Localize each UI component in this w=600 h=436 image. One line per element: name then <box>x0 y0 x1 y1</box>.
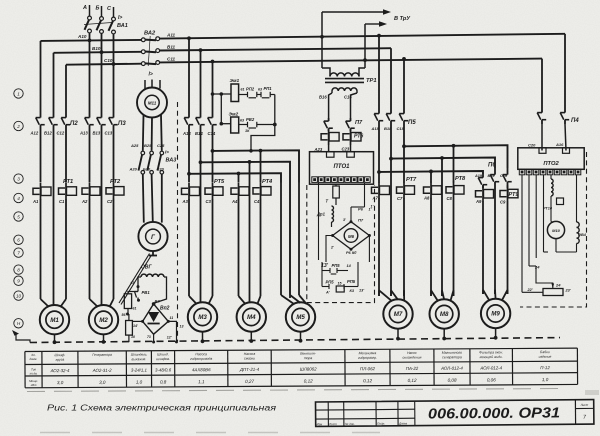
wire C distribution bus <box>213 149 300 183</box>
wire resistor connections <box>122 292 139 318</box>
resistor 15 <box>325 282 364 295</box>
svg-text:В2: В2 <box>155 299 161 304</box>
transformer ТР1 core <box>325 78 377 84</box>
dashed section boundary <box>177 102 179 341</box>
wire Эм2 feed <box>221 123 230 125</box>
svg-text:А3: А3 <box>182 199 189 204</box>
svg-text:7: 7 <box>17 250 20 255</box>
transformer ТР1 primary <box>322 68 365 77</box>
svg-text:Лист: Лист <box>580 403 589 407</box>
svg-text:РТ8: РТ8 <box>455 176 466 182</box>
node А25 В25 С25 <box>130 143 165 148</box>
wire Эм1 feed <box>211 92 231 96</box>
svg-text:Насоса: Насоса <box>244 352 256 356</box>
svg-text:М1: М1 <box>50 317 59 324</box>
contactor П5 contact A <box>371 108 384 131</box>
wire B distribution bus <box>201 160 291 295</box>
wire row С11 <box>160 56 542 62</box>
wire to А23 <box>314 145 329 152</box>
svg-text:РТ2: РТ2 <box>110 179 121 185</box>
relay contact РП2 <box>239 87 261 98</box>
svg-text:Лист: Лист <box>328 422 337 426</box>
control unit ПТО1 <box>310 152 374 185</box>
svg-text:РТ9: РТ9 <box>509 192 520 198</box>
thermal relay РТ1 heater C1 <box>59 179 77 204</box>
contactor П2 contact A <box>30 112 45 136</box>
svg-text:2: 2 <box>16 124 20 129</box>
node В2 <box>152 299 161 306</box>
table motor data <box>25 348 578 388</box>
svg-text:61: 61 <box>131 281 135 285</box>
svg-text:П-12: П-12 <box>540 365 550 370</box>
svg-text:ВА3: ВА3 <box>166 158 177 164</box>
wire М2 feeders lower <box>90 199 114 299</box>
svg-text:Р6 9Л: Р6 9Л <box>346 251 357 255</box>
wire Вп2 left arm <box>132 320 144 323</box>
wire М4 lower <box>239 199 261 296</box>
svg-text:4: 4 <box>17 196 20 201</box>
svg-text:006.00.000. ОР31: 006.00.000. ОР31 <box>428 405 560 422</box>
rectifier Вп2 <box>143 304 170 334</box>
svg-text:С12: С12 <box>57 131 65 136</box>
svg-text:24: 24 <box>555 283 561 288</box>
svg-text:3-48/0,6: 3-48/0,6 <box>155 367 172 372</box>
svg-text:С20: С20 <box>157 167 165 172</box>
svg-text:1К: 1К <box>245 129 250 133</box>
svg-text:№ док.: № док. <box>345 422 355 426</box>
svg-text:С8: С8 <box>447 196 453 201</box>
svg-text:1: 1 <box>17 91 20 96</box>
contactor П3 contact A <box>79 112 94 136</box>
node С10 junction <box>112 62 116 66</box>
scan streak bottom <box>40 432 380 434</box>
caption Рис.1 <box>47 404 277 413</box>
thermal relay РТ9 heater А9 <box>475 186 494 205</box>
node row marker 3 <box>14 174 23 183</box>
contactor П4 contact C <box>537 108 546 124</box>
svg-text:П3: П3 <box>118 121 126 127</box>
wire П6 A-bus <box>379 163 496 175</box>
svg-text:Магнитного: Магнитного <box>442 351 462 355</box>
svg-text:А13: А13 <box>79 131 88 136</box>
thermal relay РТ7 heater С7 <box>397 177 418 201</box>
svg-text:Шпиндель: Шпиндель <box>131 353 147 357</box>
winding inside ПТО2 <box>551 175 553 196</box>
thermal relay РТ1 heater A1 <box>32 183 51 204</box>
wire П6 C-bus <box>404 144 508 168</box>
svg-text:М8: М8 <box>440 311 449 318</box>
wire Вп2 bottom <box>147 334 155 343</box>
contactor П5 contact C <box>397 108 417 131</box>
svg-text:24: 24 <box>534 265 540 270</box>
svg-text:С1: С1 <box>59 199 65 204</box>
svg-text:2': 2' <box>330 246 334 250</box>
svg-text:В12: В12 <box>44 131 52 136</box>
svg-text:РТ5: РТ5 <box>214 179 225 185</box>
svg-text:8: 8 <box>17 267 20 272</box>
node phase A input <box>82 5 90 16</box>
node phase C input <box>107 6 114 17</box>
wire П4 feeder C20 <box>541 59 543 108</box>
svg-text:С7: С7 <box>397 196 403 201</box>
wire П4 feeder A16 <box>564 34 566 108</box>
node В10 junction <box>100 50 104 54</box>
svg-text:0,8: 0,8 <box>160 379 167 384</box>
wire bridge right <box>368 236 370 263</box>
contactor П3 contact B <box>93 112 106 136</box>
svg-text:моющей жидк.: моющей жидк. <box>480 355 503 359</box>
svg-text:73: 73 <box>147 335 151 339</box>
node row marker 10 <box>14 291 23 300</box>
svg-text:1,0: 1,0 <box>136 380 143 385</box>
svg-text:П7: П7 <box>358 218 364 223</box>
thermal relay РТ8 heater А8 <box>423 182 442 201</box>
arrow to ТрУ 1 <box>322 9 411 22</box>
scan streak under table <box>27 389 560 392</box>
wire bridge top <box>351 207 365 222</box>
node Н marker <box>14 319 23 328</box>
svg-text:13': 13' <box>359 289 364 293</box>
scan smudge right <box>585 390 599 395</box>
svg-text:А11: А11 <box>166 33 176 38</box>
svg-text:РВ2: РВ2 <box>246 117 255 122</box>
svg-text:ДПТ-21-4: ДПТ-21-4 <box>239 367 260 372</box>
svg-text:1': 1' <box>371 205 374 209</box>
svg-text:3-24/1,1: 3-24/1,1 <box>131 368 148 373</box>
svg-text:3,0: 3,0 <box>57 380 64 385</box>
svg-text:0,12: 0,12 <box>363 378 372 383</box>
svg-text:движ.: движ. <box>30 357 38 361</box>
svg-text:ПЛ-062: ПЛ-062 <box>360 366 376 371</box>
resistor 24 <box>536 266 571 296</box>
svg-text:Насос: Насос <box>407 351 417 355</box>
motor М4 <box>237 296 266 332</box>
svg-text:А9: А9 <box>475 199 482 204</box>
svg-text:М11: М11 <box>148 101 157 106</box>
solenoid Эм2 <box>229 111 239 133</box>
motor М11 <box>137 88 167 118</box>
circuit breaker ВА1 <box>84 15 128 34</box>
mechanical coupling Г-М2 <box>119 254 152 305</box>
node Эм return <box>273 123 277 127</box>
svg-text:14': 14' <box>133 324 138 328</box>
svg-text:13: 13 <box>180 325 184 329</box>
relay contact РВ2 <box>239 117 275 133</box>
node row marker 8 <box>14 265 23 274</box>
svg-text:выхажив.: выхажив. <box>131 357 146 361</box>
wire М4 to bus <box>249 332 253 343</box>
svg-text:П5: П5 <box>408 120 416 126</box>
svg-text:шлифов.: шлифов. <box>156 357 170 361</box>
svg-text:А10: А10 <box>77 34 87 39</box>
wire А16 to ПТО2 <box>555 124 566 151</box>
wire М2 feeders mid <box>90 130 114 305</box>
resistor block lower <box>126 314 138 342</box>
resistor block left <box>124 294 136 311</box>
resistor 2А <box>326 184 340 205</box>
wire ПТО1 int 1 <box>318 183 320 260</box>
svg-text:Фильтра окон.: Фильтра окон. <box>479 350 503 354</box>
svg-text:В14: В14 <box>195 131 203 136</box>
svg-text:С23: С23 <box>342 147 350 152</box>
node В-bus start <box>199 160 203 164</box>
svg-text:М3: М3 <box>198 314 207 321</box>
motor М2 <box>89 299 118 334</box>
svg-text:РП5: РП5 <box>326 280 335 285</box>
svg-text:П7: П7 <box>355 120 363 126</box>
wire row В11 <box>160 45 391 51</box>
svg-text:А2: А2 <box>81 199 88 204</box>
svg-text:тора: тора <box>304 356 313 360</box>
contactor П1 contact А14 <box>182 112 193 136</box>
contactor П6 contact С19 <box>500 168 512 188</box>
svg-text:С20: С20 <box>528 143 536 148</box>
wire М3 feeders mid <box>189 130 213 302</box>
svg-text:РТ7: РТ7 <box>406 177 417 183</box>
svg-text:П4: П4 <box>571 118 579 124</box>
svg-text:Дата: Дата <box>398 421 407 425</box>
contactor П2 contact B <box>44 112 58 136</box>
svg-text:М4: М4 <box>247 314 256 321</box>
svg-text:В25: В25 <box>144 143 152 148</box>
svg-text:23': 23' <box>565 289 571 293</box>
node row marker 6 <box>14 235 23 244</box>
motor М1 <box>40 299 69 334</box>
svg-text:Генератора: Генератора <box>92 353 112 357</box>
svg-text:Изм: Изм <box>317 422 323 426</box>
wire bus C left <box>65 65 67 112</box>
svg-text:С13: С13 <box>105 131 113 136</box>
contactor П6 contact В19 <box>488 168 500 188</box>
node row marker 2 <box>14 121 23 130</box>
svg-text:6: 6 <box>17 238 20 243</box>
svg-text:РВ1: РВ1 <box>142 290 151 295</box>
svg-text:ПА-22: ПА-22 <box>406 366 419 371</box>
transformer ТР1 secondary <box>332 88 357 93</box>
relay contact РП5 upper <box>321 263 352 274</box>
wire В4 drop <box>249 162 251 302</box>
svg-text:П2: П2 <box>70 121 78 127</box>
circuit breaker ВА3 <box>139 150 177 175</box>
wire М7 to bus <box>396 329 400 341</box>
title block <box>315 400 593 427</box>
wire row С10 <box>66 58 142 65</box>
svg-text:кВт: кВт <box>31 383 37 387</box>
wire ПТО1 int 2 <box>364 183 366 207</box>
svg-text:9: 9 <box>17 279 20 284</box>
wire М1 feeders lower <box>41 199 67 299</box>
wire row А10 <box>41 34 142 41</box>
svg-text:А20: А20 <box>129 167 138 172</box>
svg-text:В11: В11 <box>167 45 176 50</box>
svg-text:охлаждения: охлаждения <box>402 355 421 359</box>
svg-text:Эм1: Эм1 <box>230 78 240 84</box>
svg-text:М9: М9 <box>491 311 500 318</box>
contactor П6 contact А19 <box>474 174 487 188</box>
svg-text:5: 5 <box>17 214 20 219</box>
contactor П7 contact C <box>346 118 355 131</box>
motor М5 <box>286 302 315 331</box>
svg-text:0,08: 0,08 <box>448 378 457 383</box>
relay contact РВ1 <box>135 287 151 302</box>
node А-bus start <box>187 172 191 176</box>
node П6 C-bus start <box>402 144 406 148</box>
wire to С23 <box>342 145 351 152</box>
svg-text:гидропривода: гидропривода <box>190 357 212 361</box>
svg-text:А': А' <box>325 291 330 295</box>
motor М8 <box>430 290 459 328</box>
svg-text:В19: В19 <box>488 174 496 178</box>
wire М5 fan <box>281 295 307 304</box>
svg-text:эл.дв.: эл.дв. <box>30 371 38 375</box>
svg-text:Подп.: Подп. <box>377 422 385 426</box>
wire М9 to bus <box>494 328 498 339</box>
svg-text:0,27: 0,27 <box>245 379 254 384</box>
svg-text:1,1: 1,1 <box>198 379 205 384</box>
svg-text:С19: С19 <box>500 174 508 178</box>
svg-text:С4: С4 <box>254 199 260 204</box>
wire В14 feeder <box>199 48 203 112</box>
contactor П4 contact A <box>560 108 579 124</box>
svg-text:Шлиф.: Шлиф. <box>55 353 66 357</box>
control unit ПТО2 <box>518 148 584 175</box>
svg-text:Вп2: Вп2 <box>160 306 170 312</box>
svg-text:10: 10 <box>131 335 135 339</box>
thermal relay РТ9 heater С9 <box>500 185 519 204</box>
svg-text:Вентиля-: Вентиля- <box>300 352 316 356</box>
motor М10 <box>547 221 564 238</box>
svg-text:3,0: 3,0 <box>99 380 106 385</box>
circuit breaker ВА2 <box>141 31 159 78</box>
svg-text:А12: А12 <box>30 131 39 136</box>
winding ОВ4 <box>556 175 587 252</box>
wire М3 lower <box>189 199 213 296</box>
wire РП5 drops <box>322 262 358 287</box>
svg-text:круга: круга <box>56 358 65 362</box>
svg-text:Механизма: Механизма <box>359 351 377 355</box>
svg-text:Б: Б <box>96 6 100 12</box>
thermal relay РТ2 heater A2 <box>81 183 100 204</box>
svg-text:А4: А4 <box>231 199 238 204</box>
dashed border ПТО2 block <box>520 152 587 307</box>
svg-text:0,06: 0,06 <box>487 377 496 382</box>
svg-text:ВА2: ВА2 <box>144 31 156 37</box>
wire М11 stubs up <box>145 80 160 89</box>
arrow to ТрУ 2 <box>365 21 387 27</box>
svg-text:смазки: смазки <box>244 356 255 360</box>
contactor П1 contact В14 <box>195 112 205 136</box>
wire phase A drop <box>89 33 91 41</box>
relay contact РП5 lower <box>322 279 356 289</box>
svg-text:Насоса: Насоса <box>195 352 207 356</box>
svg-text:РТ4: РТ4 <box>262 179 273 185</box>
svg-text:I>: I> <box>149 72 153 78</box>
svg-text:А14: А14 <box>182 131 191 136</box>
svg-text:Т: Т <box>326 199 329 204</box>
svg-text:АОЛ-012-4: АОЛ-012-4 <box>440 366 463 371</box>
svg-text:1,0: 1,0 <box>542 377 549 382</box>
svg-text:В10: В10 <box>92 46 101 51</box>
svg-text:М2: М2 <box>99 317 108 324</box>
svg-text:ПТО2: ПТО2 <box>543 161 559 167</box>
wire В16 lead <box>319 93 332 118</box>
svg-text:РП5: РП5 <box>347 279 356 284</box>
wire С16 lead <box>344 93 357 118</box>
svg-text:В16: В16 <box>319 95 327 100</box>
generator Г <box>138 222 167 251</box>
svg-text:ТР1: ТР1 <box>366 78 377 84</box>
node phase B input <box>96 6 102 17</box>
inductor Др1 <box>316 206 334 227</box>
wire М2 feeders top <box>90 41 114 112</box>
node row marker 4 <box>14 193 23 202</box>
wire М1 feeders upper <box>41 130 67 305</box>
wire М9 lower <box>483 188 508 294</box>
svg-text:АОЛ-012-4: АОЛ-012-4 <box>479 365 502 370</box>
svg-text:А8: А8 <box>423 196 430 201</box>
generator shaft <box>149 251 157 255</box>
svg-text:РП1: РП1 <box>264 86 273 91</box>
svg-text:С25: С25 <box>157 143 165 148</box>
svg-text:63: 63 <box>258 88 262 92</box>
wire П5 feeder C <box>402 57 406 108</box>
ground symbol Н <box>12 330 30 343</box>
svg-text:3': 3' <box>343 218 346 222</box>
node С-bus start <box>211 149 215 153</box>
wire 22' path <box>522 288 543 292</box>
thermal relay РТ4 heater А4 <box>231 183 249 204</box>
svg-text:ВА1: ВА1 <box>117 23 128 29</box>
svg-text:В ТрУ: В ТрУ <box>394 16 411 22</box>
wire ОВГ left <box>131 277 142 288</box>
wire Вп2 right arm <box>167 316 184 344</box>
svg-text:12': 12' <box>167 336 172 340</box>
wire С4 drop <box>260 151 262 183</box>
svg-text:М6: М6 <box>348 234 355 239</box>
contactor П5 contact B <box>384 108 395 131</box>
wire Эм feed drop <box>220 94 224 125</box>
wire С20 to ПТО2 <box>528 124 542 151</box>
svg-text:10: 10 <box>16 293 22 298</box>
svg-text:С10: С10 <box>104 58 113 63</box>
svg-text:ПТО1: ПТО1 <box>334 164 351 170</box>
svg-text:4АХ80В6: 4АХ80В6 <box>192 367 211 372</box>
svg-text:ШЛ8062: ШЛ8062 <box>300 367 317 372</box>
svg-text:сепаратора: сепаратора <box>442 355 462 359</box>
wire 24 label <box>529 265 540 270</box>
svg-text:А: А <box>82 5 87 11</box>
node row marker 1 <box>14 89 23 98</box>
svg-text:А16: А16 <box>555 142 564 147</box>
svg-text:Б20: Б20 <box>143 167 151 172</box>
contactor П2 contact C <box>57 112 79 136</box>
wire ТрУ tap C <box>363 24 367 68</box>
node row marker 7 <box>14 248 23 257</box>
dashed common bus <box>30 338 560 343</box>
wire bus A left <box>40 41 42 112</box>
svg-text:М5: М5 <box>296 314 305 321</box>
solenoid Эм1 <box>230 78 240 102</box>
wire bus B left <box>53 53 55 112</box>
wire row А11 <box>160 33 565 39</box>
wire П6 B-bus <box>391 156 495 168</box>
svg-text:61: 61 <box>241 88 245 92</box>
svg-text:М7: М7 <box>394 311 403 318</box>
wire М3 to bus <box>201 332 205 343</box>
svg-text:А19: А19 <box>474 174 483 178</box>
svg-text:А7: А7 <box>372 196 379 201</box>
svg-text:63: 63 <box>240 118 244 122</box>
